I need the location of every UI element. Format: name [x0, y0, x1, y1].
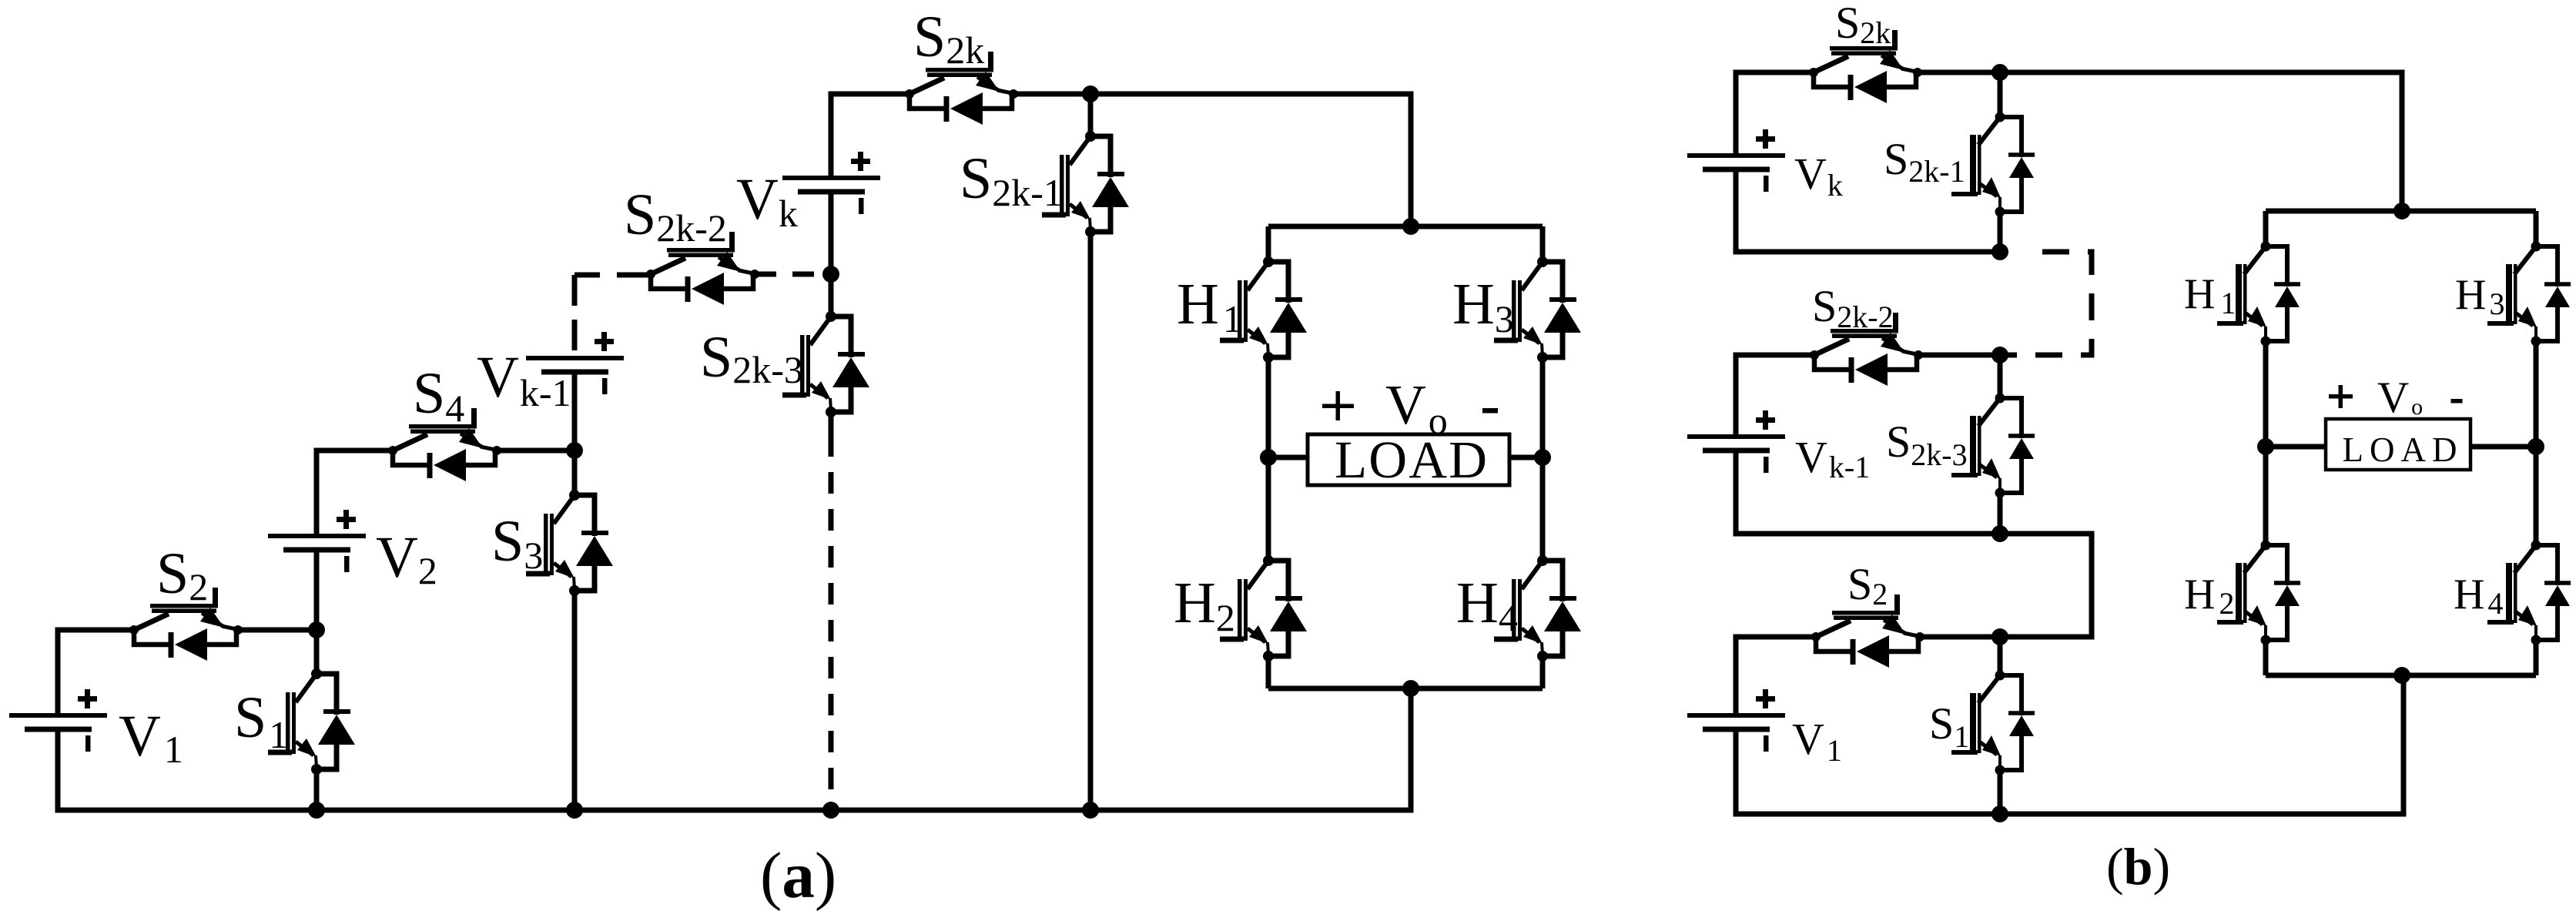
wire b H4 to bottom rail — [2534, 640, 2539, 675]
wire mid rail to H2 — [1266, 457, 1271, 561]
wire S2k-1 to bottom bus — [1088, 232, 1094, 810]
label Vk-1 a — [477, 345, 571, 414]
dashed wire Vk-1 riser — [572, 275, 578, 358]
plus sign Vo b — [2329, 385, 2353, 408]
label H1 a — [1177, 272, 1242, 340]
wire mid rail to H4 — [1540, 457, 1546, 561]
node junction a9 — [822, 802, 839, 819]
switch b S2k — [1809, 30, 1922, 103]
wire b H-bridge top rail — [2266, 209, 2536, 214]
wire b mid rail to H4 — [2534, 447, 2539, 545]
label S2k-3 b — [1886, 417, 1968, 472]
battery b Vk-1 — [1687, 410, 1785, 473]
wire S2 to junction A1 — [238, 628, 317, 633]
wire b mid rail to H2 — [2263, 447, 2269, 545]
transistor H2 — [1220, 555, 1307, 661]
wire H4 to bottom rail — [1540, 656, 1546, 688]
wire junction A4 to S2k-1 — [1088, 94, 1094, 136]
wire H-bridge a bottom rail — [1268, 686, 1543, 692]
battery Vk — [782, 152, 880, 214]
label S2k-2 b — [1812, 281, 1894, 334]
node junction b9 — [2257, 438, 2274, 455]
transistor H3 — [1494, 256, 1581, 363]
node junction b4 — [1991, 525, 2008, 542]
battery b V1 — [1687, 689, 1785, 752]
wire b H-bridge bottom rail — [2266, 673, 2536, 678]
node junction b7 — [2393, 203, 2410, 219]
node junction a12 — [1534, 449, 1551, 466]
wire mid rail to LOAD a left — [1268, 455, 1308, 461]
label Vk a — [736, 167, 798, 235]
wire b module1 bottom — [1736, 169, 2000, 252]
transistor b S2k-1 — [1951, 112, 2035, 217]
wire junction A1 to S1 — [314, 630, 320, 674]
node junction a2 — [566, 442, 583, 459]
node junction b10 — [2527, 438, 2544, 455]
battery V2 — [268, 510, 366, 572]
svg-text:(a): (a) — [760, 839, 836, 911]
label S2k b — [1835, 0, 1891, 50]
switch b S2 — [1811, 594, 1924, 668]
wire b module2 to module3 link — [2000, 534, 2092, 637]
node junction a1 — [308, 621, 325, 638]
dashed wire S2k-3 to bottom bus — [829, 435, 834, 810]
wire S4 to junction A2 — [496, 448, 574, 454]
battery V1 — [9, 689, 107, 752]
switch S2k — [905, 52, 1018, 125]
svg-text:(b): (b) — [2106, 837, 2170, 896]
label S2k-2 a — [624, 183, 727, 250]
wire junction A2 to Vk-1 — [572, 372, 578, 450]
wire b bottom link — [1736, 675, 2403, 814]
wire H3 to mid rail — [1540, 357, 1546, 457]
label S2 — [156, 541, 208, 608]
label S3 — [491, 509, 543, 577]
node junction b5 — [1991, 628, 2008, 645]
wire S2k to junction A4 — [1012, 92, 1090, 97]
wire b V1 top to S2 — [1736, 637, 1816, 715]
wire b S2k-2 to junction B3 — [1921, 353, 2000, 358]
wire S1 to bottom bus — [314, 769, 320, 810]
wire b H1 to mid rail — [2263, 341, 2269, 447]
wire b mid rail to LOAD left — [2266, 444, 2326, 450]
wire junction A4 to H-bridge top — [1090, 94, 1411, 226]
label Vk b — [1794, 149, 1843, 203]
wire b S2k to junction B1 — [1921, 70, 2000, 75]
battery Vk-1 — [526, 332, 624, 394]
wire junction A1 to V2 — [314, 550, 320, 630]
transistor b H1 — [2217, 242, 2300, 347]
label V2 — [376, 525, 437, 592]
node junction a5 — [1402, 218, 1419, 235]
label S2k-1 a — [960, 146, 1063, 214]
transistor b H4 — [2487, 541, 2571, 645]
caption (b) — [2106, 837, 2170, 896]
transistor b H2 — [2217, 541, 2300, 645]
node junction b3 — [1991, 347, 2008, 363]
label Vk-1 b — [1795, 432, 1870, 484]
transistor S3 — [526, 490, 613, 596]
node junction b1 — [1991, 64, 2008, 81]
transistor S2k-3 — [782, 311, 869, 417]
wire b S2k-3 to junction B4 — [1998, 493, 2003, 534]
node junction a10 — [1082, 802, 1099, 819]
wire b top rail to H1 — [2263, 211, 2269, 246]
plus sign Vo a — [1322, 391, 1354, 420]
wire H-bridge a top rail — [1268, 224, 1543, 229]
wire V1 top to S2 — [58, 630, 134, 715]
label H3 a — [1452, 272, 1514, 340]
switch b S2k-2 — [1810, 313, 1923, 386]
node junction a6 — [1402, 680, 1419, 697]
wire b Vk top to S2k — [1736, 72, 1814, 156]
transistor b H3 — [2487, 242, 2571, 347]
dashed wire b module1 to module2 link — [2000, 252, 2092, 355]
wire b LOAD right to mid rail — [2470, 444, 2536, 450]
wire b Vk-1 top to S2k-2 — [1736, 355, 1814, 437]
wire top rail to H1 — [1266, 226, 1271, 262]
transistor H4 — [1494, 555, 1581, 661]
label Vo b — [2377, 373, 2423, 422]
node junction b2 — [1991, 243, 2008, 260]
label V1 b — [1792, 714, 1842, 768]
wire Vk top to S2k — [831, 94, 909, 178]
wire b H2 to bottom rail — [2263, 640, 2269, 675]
wire junction A2 to S3 — [572, 450, 578, 495]
label S1 — [234, 685, 288, 756]
wire b S2k-1 to junction B2 — [1998, 212, 2003, 252]
caption (a) — [760, 839, 836, 911]
label H4 a — [1456, 571, 1518, 639]
node junction a3 — [822, 266, 839, 283]
wire b junction B3 to S2k-3 — [1998, 355, 2003, 398]
wire junction A3 to S2k-3 — [829, 274, 834, 317]
transistor b S1 — [1951, 671, 2035, 775]
wire top rail to H3 — [1540, 226, 1546, 262]
wire b top link to H-bridge — [2000, 72, 2402, 211]
label S2k-1 b — [1884, 134, 1965, 189]
label S2k-3 a — [700, 325, 803, 391]
label H2 a — [1174, 571, 1235, 639]
wire V2 top to S4 — [317, 450, 393, 536]
wire b junction B5 to S1 — [1998, 637, 2003, 675]
wire b module2 bottom — [1736, 450, 2000, 534]
dashed wire S2k-2 to junction A3 — [755, 272, 831, 277]
label V1 — [119, 704, 183, 771]
minus sign Vo a — [1482, 408, 1498, 414]
wire b junction B1 to S2k-1 — [1998, 72, 2003, 117]
wire H1 to mid rail — [1266, 357, 1271, 457]
wire S3 to bottom bus — [572, 591, 578, 810]
label H2 b — [2184, 571, 2234, 621]
wire b H3 to mid rail — [2534, 341, 2539, 447]
wire bottom bus — [58, 688, 1411, 810]
node junction a4 — [1082, 85, 1099, 102]
wire junction A3 to Vk — [829, 192, 834, 274]
node junction b6 — [1991, 805, 2008, 822]
label H3 b — [2455, 271, 2504, 321]
wire LOAD a right to mid rail — [1509, 455, 1543, 461]
label S2 b — [1847, 559, 1888, 611]
node junction a8 — [566, 802, 583, 819]
label S4 — [413, 361, 464, 430]
switch S4 — [388, 408, 501, 481]
label Vo a — [1385, 373, 1448, 442]
minus sign Vo b — [2451, 399, 2463, 404]
node junction b8 — [2393, 667, 2410, 684]
svg-text:LOAD: LOAD — [1335, 430, 1487, 489]
wire b top rail to H3 — [2534, 211, 2539, 246]
load box a — [1308, 430, 1509, 489]
node junction a7 — [308, 802, 325, 819]
switch S2 — [129, 588, 243, 661]
label H4 b — [2454, 571, 2503, 621]
load box b — [2326, 419, 2470, 470]
wire S2k-3 bottom stub — [829, 412, 834, 435]
wire H2 to bottom rail — [1266, 656, 1271, 688]
transistor b S2k-3 — [1951, 394, 2035, 498]
node junction a11 — [1260, 449, 1277, 466]
switch S2k-2 — [646, 232, 759, 305]
label H1 b — [2184, 270, 2236, 320]
battery b Vk — [1687, 129, 1785, 192]
transistor S1 — [268, 668, 355, 775]
wire b S2 to junction B5 — [1920, 635, 2000, 640]
label S2k a — [913, 5, 984, 72]
label S1 b — [1929, 698, 1969, 754]
wire b S1 to bottom — [1998, 770, 2003, 814]
dashed wire Vk-1 to S2k-2 — [574, 273, 651, 278]
transistor S2k-1 — [1042, 131, 1129, 237]
transistor H1 — [1220, 256, 1307, 363]
